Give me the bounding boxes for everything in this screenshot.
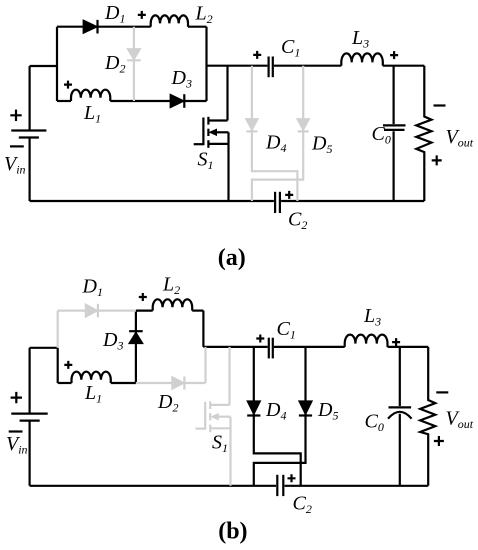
wire loop right (a) — [205, 27, 207, 101]
wire loop bottom left (b) — [58, 382, 72, 384]
plus L1 (b) — [64, 361, 72, 369]
diode D2 (grey, b) — [172, 376, 185, 389]
wire loop left black (b) — [57, 348, 59, 383]
label Vin (b) — [6, 433, 28, 457]
bottom bus right (a) — [281, 200, 424, 202]
diode D2 (grey) — [127, 27, 141, 101]
label L1 (a) — [83, 102, 101, 126]
inductor L3 (a) — [341, 53, 383, 65]
label D4 (b) — [265, 399, 286, 423]
label S1 (b) — [212, 432, 228, 456]
label L3 (b) — [363, 305, 381, 329]
plus battery (a) — [10, 110, 21, 121]
label (a) — [218, 245, 246, 271]
label D5 (b) — [317, 399, 338, 423]
wire node to C1 (a) — [207, 65, 268, 67]
plus battery (b) — [11, 392, 22, 403]
wire loop bottom left (a) — [57, 100, 71, 102]
wire loop left (a) — [56, 27, 58, 101]
minus battery (a) — [10, 145, 24, 147]
capacitor C2 (a) — [275, 192, 280, 213]
label (b) — [218, 519, 247, 545]
wire loop top right segment (a) — [188, 26, 207, 28]
plus L2 (b) — [139, 293, 147, 301]
plus L3 (b) — [392, 338, 400, 346]
wire C1 to L3 (b) — [274, 346, 345, 348]
inductor L1 (b) — [72, 372, 111, 383]
label C2 (b) — [293, 493, 312, 517]
label D2 (a) — [104, 52, 125, 76]
plus C2 (a) — [285, 191, 293, 199]
wire top grey (b) — [58, 310, 136, 312]
bottom bus right (b) — [285, 485, 429, 487]
plus C1 (b) — [256, 335, 264, 343]
label Vout (a) — [446, 126, 474, 150]
wire top black to L2 (b) — [136, 310, 153, 312]
wire input top (b) — [30, 347, 58, 349]
label C1 (b) — [277, 318, 296, 342]
label Vin (a) — [4, 153, 26, 177]
inductor L1 (a) — [71, 90, 110, 101]
diode D4 (grey, a) — [245, 66, 297, 201]
label C0 (a) — [372, 123, 391, 147]
plus L1 (a) — [64, 81, 72, 89]
battery Vin (b) — [11, 348, 47, 486]
label D1 (b) — [82, 276, 103, 300]
label S1 (a) — [198, 149, 214, 173]
capacitor C0 (b) — [388, 347, 412, 486]
label D3 (b) — [102, 329, 123, 353]
plus C1 (a) — [253, 51, 261, 59]
diode D5 (b) — [254, 347, 312, 486]
wire L2 to corner (b) — [192, 310, 203, 312]
diode D1 — [83, 20, 97, 34]
wire D2 branch grey (b) — [136, 347, 206, 383]
plus Vout (b) — [434, 436, 444, 446]
bottom bus left (a) — [30, 200, 274, 202]
capacitor C2 (b) — [277, 475, 283, 496]
plus L3 (a) — [390, 51, 398, 59]
wire loop bottom right (a) — [110, 100, 206, 102]
plus Vout (a) — [432, 155, 442, 165]
wire L3 to corner (a) — [383, 65, 425, 67]
wire node to C1 (b) — [203, 346, 267, 348]
inductor L2 (a) — [151, 15, 188, 26]
minus Vout (a) — [434, 104, 446, 106]
capacitor C1 (b) — [269, 338, 273, 359]
label L1 (b) — [84, 382, 102, 406]
label D2 (b) — [157, 391, 178, 415]
inductor L2 (b) — [153, 299, 193, 310]
resistor Vout load (b) — [420, 347, 435, 486]
label C1 (a) — [281, 36, 300, 60]
wire C1 to L3 (a) — [274, 65, 341, 67]
bottom bus left (b) — [30, 485, 276, 487]
wire L2 down (b) — [202, 311, 204, 347]
capacitor C1 (a) — [269, 57, 273, 78]
transistor S1 (a) — [194, 66, 229, 201]
resistor Vout load (a) — [416, 66, 431, 201]
plus L2 (a) — [138, 11, 146, 19]
label Vout (b) — [446, 408, 474, 432]
svg-text:(b): (b) — [218, 519, 247, 545]
wire input top (a) — [30, 65, 57, 67]
inductor L3 (b) — [345, 335, 388, 347]
transistor S1 (grey, b) — [196, 347, 231, 486]
label D5 (a) — [311, 133, 332, 157]
label C2 (a) — [288, 209, 307, 233]
battery Vin (a) — [11, 66, 46, 201]
diode D4 (b) — [247, 347, 301, 486]
diode D1 (grey, b) — [85, 304, 98, 318]
label L2 (a) — [195, 2, 213, 26]
diode D3 (b) — [129, 311, 143, 383]
wire L1 to D3 node (b) — [111, 382, 136, 384]
label C0 (b) — [365, 411, 384, 435]
wire loop top left segment (a) — [57, 26, 151, 28]
label D4 (a) — [265, 132, 286, 156]
diode D5 (grey, a) — [252, 66, 310, 201]
diode D3 — [170, 94, 184, 108]
minus Vout (b) — [436, 391, 448, 393]
label D3 (a) — [171, 67, 192, 91]
label L2 (b) — [162, 274, 180, 298]
label L3 (a) — [351, 27, 369, 51]
wire left grey (b) — [57, 311, 59, 348]
label D1 (a) — [104, 2, 125, 26]
minus battery (b) — [9, 430, 23, 432]
wire L3 to corner (b) — [388, 346, 429, 348]
plus C2 (b) — [288, 474, 296, 482]
svg-text:(a): (a) — [218, 245, 246, 271]
capacitor C0 (a) — [383, 66, 406, 201]
